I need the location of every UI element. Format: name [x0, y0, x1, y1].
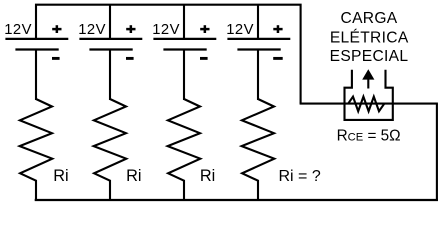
wire from top bus through load box to right drop — [300, 103, 438, 105]
label - (B3) — [200, 57, 208, 60]
label + (B2) — [126, 25, 135, 33]
svg-text:12V: 12V — [152, 22, 180, 38]
svg-text:Ri: Ri — [53, 167, 68, 185]
wire top bus — [36, 5, 301, 104]
label + (B4) — [273, 25, 282, 33]
label - (B4) — [273, 57, 283, 60]
svg-text:ESPECIAL: ESPECIAL — [330, 48, 409, 65]
load box RCE outline — [345, 70, 393, 120]
svg-text:Ri: Ri — [126, 167, 141, 185]
resistor zigzag inside load box — [348, 97, 384, 112]
battery B1 12V — [5, 39, 68, 100]
resistor Ri 1 — [20, 99, 53, 201]
svg-text:Ri: Ri — [200, 167, 215, 185]
battery B4 12V — [227, 5, 290, 100]
label CARGA ELETRICA ESPECIAL — [330, 10, 409, 65]
svg-text:Ri = ?: Ri = ? — [279, 168, 321, 185]
svg-text:ELÉTRICA: ELÉTRICA — [330, 28, 409, 47]
wire bottom bus — [35, 199, 438, 201]
resistor Ri 3 — [168, 99, 201, 201]
svg-text:12V: 12V — [4, 22, 32, 38]
arrow up inside load — [362, 69, 374, 88]
label - (B1) — [52, 57, 60, 60]
resistor Ri 2 — [94, 99, 127, 201]
wire right drop — [436, 104, 438, 201]
label + (B1) — [52, 25, 61, 33]
battery B3 12V — [153, 5, 216, 100]
svg-text:12V: 12V — [78, 22, 106, 38]
svg-text:12V: 12V — [226, 22, 254, 38]
svg-text:CARGA: CARGA — [341, 10, 398, 27]
label - (B2) — [126, 57, 134, 60]
battery B2 12V — [79, 5, 142, 100]
resistor Ri 4 — [242, 99, 275, 201]
label + (B3) — [200, 25, 209, 33]
svg-text:RCE = 5Ω: RCE = 5Ω — [337, 128, 401, 145]
